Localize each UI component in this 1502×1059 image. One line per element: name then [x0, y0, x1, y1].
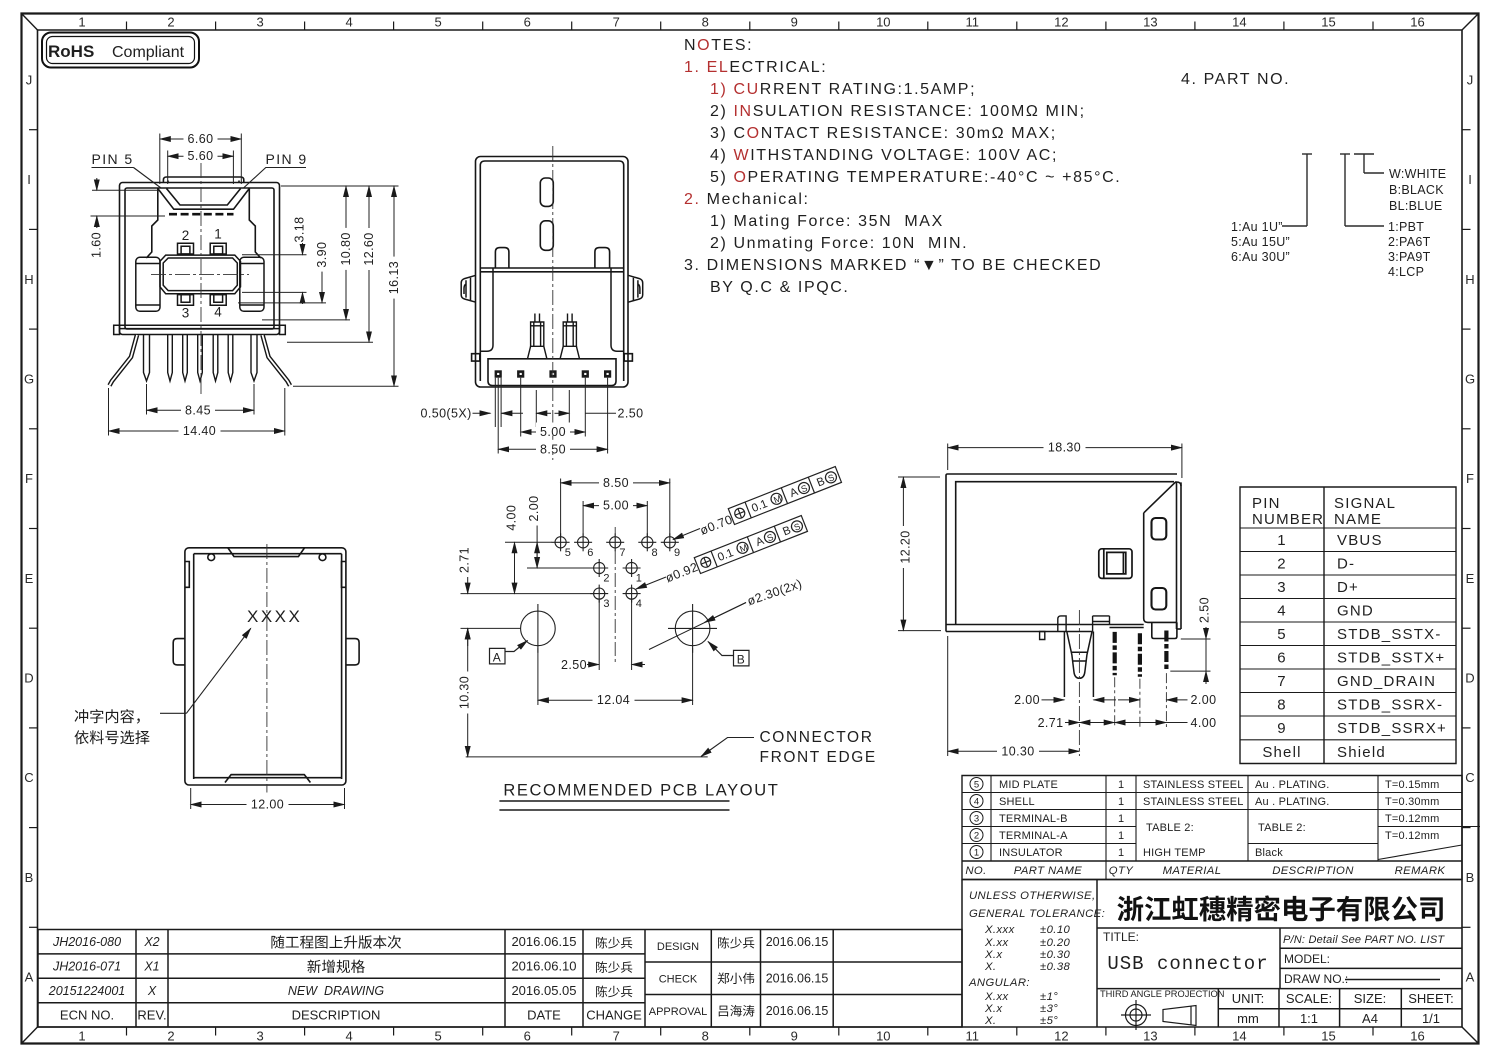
- svg-text:18.30: 18.30: [1048, 441, 1081, 455]
- svg-text:5:Au 15U”: 5:Au 15U”: [1231, 235, 1290, 249]
- svg-text:2: 2: [167, 15, 174, 30]
- svg-text:PIN 9: PIN 9: [266, 151, 308, 167]
- svg-text:11: 11: [966, 15, 980, 30]
- dims pcb top: [561, 479, 670, 537]
- svg-text:BL:BLUE: BL:BLUE: [1389, 199, 1443, 213]
- svg-text:13: 13: [1143, 15, 1157, 30]
- svg-text:STAINLESS STEEL: STAINLESS STEEL: [1143, 779, 1244, 791]
- svg-text:J: J: [26, 72, 33, 87]
- svg-text:DRAW NO.:: DRAW NO.:: [1284, 972, 1348, 986]
- svg-text:B: B: [737, 652, 745, 666]
- leader 0.70 with fcf: [673, 529, 700, 540]
- svg-text:4: 4: [974, 797, 979, 808]
- svg-text:±5°: ±5°: [1040, 1015, 1058, 1027]
- svg-text:CHECK: CHECK: [659, 974, 698, 986]
- CJK text placeholder: [74, 709, 1442, 1016]
- svg-text:TABLE 2:: TABLE 2:: [1146, 822, 1194, 834]
- svg-text:2) Unmating Force: 10N MIN.: 2) Unmating Force: 10N MIN.: [710, 235, 968, 252]
- svg-text:Shield: Shield: [1337, 744, 1386, 761]
- bent legs: [110, 335, 138, 386]
- svg-text:1: 1: [214, 227, 222, 242]
- svg-text:2.71: 2.71: [458, 547, 472, 573]
- svg-text:QTY: QTY: [1109, 865, 1134, 877]
- svg-text:16.13: 16.13: [387, 261, 401, 294]
- svg-text:P/N: Detail See PART NO. LIST: P/N: Detail See PART NO. LIST: [1283, 934, 1445, 946]
- svg-text:1) CURRENT RATING:1.5AMP;: 1) CURRENT RATING:1.5AMP;: [710, 81, 976, 98]
- svg-text:9: 9: [791, 1029, 798, 1044]
- dim 1.60: [91, 178, 166, 262]
- svg-text:GND: GND: [1337, 603, 1374, 620]
- svg-text:9: 9: [791, 15, 798, 30]
- svg-text:STDB_SSRX+: STDB_SSRX+: [1337, 720, 1447, 737]
- svg-text:PART NAME: PART NAME: [1014, 865, 1083, 877]
- svg-text:TERMINAL-A: TERMINAL-A: [999, 830, 1068, 842]
- svg-text:10.30: 10.30: [458, 676, 472, 709]
- svg-text:±3°: ±3°: [1040, 1003, 1058, 1015]
- svg-text:4:LCP: 4:LCP: [1388, 265, 1424, 279]
- svg-text:2016.06.15: 2016.06.15: [511, 934, 576, 949]
- svg-text:2:PA6T: 2:PA6T: [1388, 235, 1431, 249]
- svg-text:Compliant: Compliant: [112, 44, 185, 61]
- svg-text:D: D: [1465, 671, 1474, 686]
- svg-text:3: 3: [256, 15, 263, 30]
- svg-text:ECN NO.: ECN NO.: [60, 1008, 114, 1023]
- svg-text:15: 15: [1321, 1029, 1335, 1044]
- center peg: [1064, 632, 1093, 698]
- svg-text:X2: X2: [143, 935, 159, 949]
- svg-text:15: 15: [1321, 15, 1335, 30]
- svg-text:2.00: 2.00: [1014, 693, 1040, 707]
- svg-text:JH2016-080: JH2016-080: [52, 935, 121, 949]
- svg-text:X.xx: X.xx: [984, 937, 1009, 949]
- svg-text:G: G: [24, 371, 34, 386]
- svg-text:12.60: 12.60: [362, 232, 376, 265]
- svg-text:Shell: Shell: [1262, 744, 1301, 761]
- svg-text:5.00: 5.00: [603, 499, 629, 513]
- svg-text:SIGNAL: SIGNAL: [1334, 495, 1396, 512]
- side latches: [136, 257, 264, 311]
- svg-text:RECOMMENDED PCB LAYOUT: RECOMMENDED PCB LAYOUT: [503, 782, 779, 800]
- dashed opening bottom: [169, 213, 234, 216]
- svg-text:DATE: DATE: [527, 1008, 561, 1023]
- svg-text:2: 2: [1277, 556, 1287, 573]
- svg-text:8: 8: [702, 1029, 709, 1044]
- svg-text:12: 12: [1054, 1029, 1068, 1044]
- svg-text:D: D: [24, 671, 33, 686]
- svg-text:TITLE:: TITLE:: [1103, 930, 1139, 944]
- svg-text:1. ELECTRICAL:: 1. ELECTRICAL:: [684, 59, 827, 76]
- svg-text:4. PART NO.: 4. PART NO.: [1181, 71, 1290, 88]
- svg-text:14: 14: [1232, 15, 1246, 30]
- svg-text:1:Au 1U”: 1:Au 1U”: [1231, 220, 1283, 234]
- svg-text:NUMBER: NUMBER: [1252, 511, 1324, 528]
- svg-text:X.: X.: [984, 1015, 996, 1027]
- svg-text:4.00: 4.00: [1191, 716, 1217, 730]
- leader 0.92 with fcf: [636, 577, 666, 589]
- svg-text:10: 10: [876, 15, 890, 30]
- svg-text:B:BLACK: B:BLACK: [1389, 183, 1444, 197]
- svg-text:1: 1: [1277, 532, 1287, 549]
- svg-text:RoHS: RoHS: [48, 42, 94, 61]
- bottom flange: [114, 325, 286, 334]
- svg-text:5.00: 5.00: [540, 425, 566, 439]
- svg-text:J: J: [1467, 72, 1474, 87]
- svg-text:16: 16: [1410, 15, 1424, 30]
- svg-text:X.x: X.x: [984, 1003, 1003, 1015]
- svg-text:10.80: 10.80: [339, 232, 353, 265]
- svg-text:JH2016-071: JH2016-071: [52, 959, 121, 973]
- svg-text:CHANGE: CHANGE: [586, 1008, 642, 1023]
- side legs: [1113, 632, 1117, 675]
- svg-text:1: 1: [78, 1029, 85, 1044]
- svg-text:VBUS: VBUS: [1337, 532, 1383, 549]
- svg-text:3: 3: [182, 306, 190, 321]
- company name 浙江虹穗精密电子有限公司: [1117, 896, 1143, 922]
- svg-text:APPROVAL: APPROVAL: [649, 1006, 708, 1018]
- svg-text:1: 1: [974, 848, 979, 859]
- svg-text:3.90: 3.90: [315, 242, 329, 268]
- svg-text:5: 5: [434, 1029, 441, 1044]
- svg-text:13: 13: [1143, 1029, 1157, 1044]
- svg-text:1: 1: [78, 15, 85, 30]
- leader arrow to XXXX: [160, 628, 251, 713]
- svg-text:5.60: 5.60: [188, 149, 214, 163]
- svg-text:GENERAL TOLERANCE:: GENERAL TOLERANCE:: [969, 908, 1105, 920]
- svg-text:MATERIAL: MATERIAL: [1163, 865, 1222, 877]
- svg-text:1: 1: [1118, 796, 1124, 808]
- svg-text:STAINLESS STEEL: STAINLESS STEEL: [1143, 796, 1244, 808]
- svg-text:B: B: [25, 870, 34, 885]
- dims 2.00 2.00 2.71 4.00 10.30: [948, 636, 1188, 756]
- svg-text:2016.06.15: 2016.06.15: [766, 1004, 829, 1018]
- svg-text:5: 5: [565, 547, 571, 559]
- svg-text:CONNECTOR: CONNECTOR: [760, 729, 874, 746]
- svg-text:10.30: 10.30: [1001, 744, 1034, 758]
- view 3: shell top view: [173, 548, 359, 785]
- svg-text:ANGULAR:: ANGULAR:: [968, 977, 1030, 989]
- svg-text:T=0.12mm: T=0.12mm: [1385, 813, 1439, 825]
- svg-text:3: 3: [974, 814, 979, 825]
- datum A and B: [490, 641, 750, 666]
- svg-text:H: H: [24, 272, 33, 287]
- contact pins: [528, 314, 547, 359]
- svg-text:X.xxx: X.xxx: [984, 924, 1015, 936]
- svg-text:X: X: [147, 984, 157, 998]
- svg-text:1:1: 1:1: [1300, 1011, 1318, 1026]
- svg-text:2.50: 2.50: [561, 658, 587, 672]
- svg-text:8.50: 8.50: [603, 476, 629, 490]
- centerline view2: [552, 146, 554, 460]
- svg-text:2016.05.05: 2016.05.05: [511, 983, 576, 998]
- svg-text:NO.: NO.: [965, 865, 986, 877]
- svg-text:8: 8: [1277, 697, 1287, 714]
- dim 2.50 side: [1170, 626, 1210, 684]
- svg-text:4: 4: [214, 305, 222, 320]
- svg-text:THIRD ANGLE PROJECTION: THIRD ANGLE PROJECTION: [1100, 989, 1225, 999]
- side strips: [480, 268, 623, 351]
- svg-text:X.xx: X.xx: [984, 991, 1009, 1003]
- svg-text:8: 8: [702, 15, 709, 30]
- svg-text:3: 3: [603, 598, 609, 610]
- svg-text:H: H: [1465, 272, 1474, 287]
- svg-text:3.18: 3.18: [293, 217, 307, 243]
- svg-text:±0.20: ±0.20: [1040, 937, 1071, 949]
- svg-text:6: 6: [524, 15, 531, 30]
- svg-text:X.x: X.x: [984, 949, 1003, 961]
- svg-text:D-: D-: [1337, 556, 1355, 573]
- svg-text:BY Q.C & IPQC.: BY Q.C & IPQC.: [710, 279, 849, 296]
- svg-text:20151224001: 20151224001: [48, 984, 125, 998]
- svg-text:2016.06.10: 2016.06.10: [511, 958, 576, 973]
- svg-text:Black: Black: [1255, 847, 1283, 859]
- svg-text:4: 4: [345, 1029, 352, 1044]
- svg-text:2: 2: [603, 573, 609, 585]
- svg-text:14: 14: [1232, 1029, 1246, 1044]
- svg-text:A: A: [25, 970, 34, 985]
- svg-text:10: 10: [876, 1029, 890, 1044]
- svg-text:T=0.12mm: T=0.12mm: [1385, 830, 1439, 842]
- svg-text:16: 16: [1410, 1029, 1424, 1044]
- svg-text:1/1: 1/1: [1422, 1011, 1440, 1026]
- dims view1: [160, 134, 242, 185]
- svg-text:4: 4: [1277, 603, 1287, 620]
- under-body structure: [1040, 616, 1144, 640]
- svg-text:2: 2: [182, 228, 190, 243]
- centerlines view1: [151, 163, 249, 396]
- svg-text:NAME: NAME: [1334, 511, 1382, 528]
- svg-text:5: 5: [434, 15, 441, 30]
- svg-text:1: 1: [1118, 847, 1124, 859]
- svg-text:8.45: 8.45: [185, 403, 211, 417]
- svg-text:2.50: 2.50: [1198, 597, 1212, 623]
- svg-text:8: 8: [652, 547, 658, 559]
- svg-text:2.71: 2.71: [1038, 716, 1064, 730]
- svg-text:±1°: ±1°: [1040, 991, 1058, 1003]
- svg-text:2016.06.15: 2016.06.15: [766, 972, 829, 986]
- svg-text:7: 7: [613, 1029, 620, 1044]
- svg-text:MID PLATE: MID PLATE: [999, 779, 1058, 791]
- svg-text:C: C: [24, 770, 33, 785]
- svg-text:12.00: 12.00: [251, 798, 284, 812]
- svg-text:X1: X1: [143, 959, 159, 973]
- svg-text:6: 6: [587, 547, 593, 559]
- svg-text:7: 7: [1277, 673, 1287, 690]
- svg-text:12.04: 12.04: [597, 693, 630, 707]
- base: [472, 354, 633, 386]
- pins 1 2 3 4: [178, 243, 227, 305]
- dims 8.45 / 14.40: [109, 384, 285, 436]
- bottom pins: [495, 370, 502, 377]
- svg-text:STDB_SSRX-: STDB_SSRX-: [1337, 697, 1443, 714]
- svg-text:5: 5: [974, 780, 979, 791]
- svg-text:SCALE:: SCALE:: [1286, 991, 1332, 1006]
- svg-text:REV.: REV.: [137, 1008, 166, 1023]
- svg-text:STDB_SSTX+: STDB_SSTX+: [1337, 650, 1445, 667]
- svg-text:3: 3: [256, 1029, 263, 1044]
- svg-text:X.: X.: [984, 961, 996, 973]
- svg-text:TERMINAL-B: TERMINAL-B: [999, 813, 1068, 825]
- svg-text:1:PBT: 1:PBT: [1388, 220, 1424, 234]
- svg-text:REMARK: REMARK: [1395, 865, 1446, 877]
- svg-text:3. DIMENSIONS MARKED “▼” TO BE: 3. DIMENSIONS MARKED “▼” TO BE CHECKED: [684, 257, 1102, 274]
- svg-text:Au . PLATING.: Au . PLATING.: [1255, 796, 1330, 808]
- svg-text:MODEL:: MODEL:: [1284, 952, 1330, 966]
- svg-text:A: A: [1466, 970, 1475, 985]
- svg-text:4) WITHSTANDING VOLTAGE: 100V: 4) WITHSTANDING VOLTAGE: 100V AC;: [710, 147, 1058, 164]
- svg-text:3) CONTACT RESISTANCE: 30mΩ MA: 3) CONTACT RESISTANCE: 30mΩ MAX;: [710, 125, 1057, 142]
- svg-text:DESCRIPTION: DESCRIPTION: [292, 1008, 381, 1023]
- svg-text:HIGH TEMP: HIGH TEMP: [1143, 847, 1206, 859]
- svg-text:±0.30: ±0.30: [1040, 949, 1071, 961]
- dim 2.50 pcb: [587, 600, 645, 670]
- dims view2: [473, 378, 617, 454]
- svg-text:T=0.30mm: T=0.30mm: [1385, 796, 1439, 808]
- svg-text:Au . PLATING.: Au . PLATING.: [1255, 779, 1330, 791]
- svg-text:1) Mating Force: 35N MAX: 1) Mating Force: 35N MAX: [710, 213, 944, 230]
- svg-text:6:Au 30U”: 6:Au 30U”: [1231, 250, 1290, 264]
- dim 12.04: [538, 648, 693, 705]
- svg-text:2: 2: [167, 1029, 174, 1044]
- right dims: [238, 186, 399, 386]
- svg-text:USB connector: USB connector: [1107, 953, 1268, 975]
- svg-text:2.00: 2.00: [527, 496, 541, 522]
- side wings: [461, 275, 643, 302]
- latch hole: [1099, 549, 1132, 579]
- view 2: connector front view B: [476, 157, 629, 388]
- svg-text:XXXX: XXXX: [247, 607, 302, 626]
- svg-text:PIN 5: PIN 5: [92, 151, 134, 167]
- svg-text:PIN: PIN: [1252, 495, 1281, 512]
- svg-text:9: 9: [674, 547, 680, 559]
- svg-text:UNIT:: UNIT:: [1232, 991, 1265, 1006]
- svg-text:±0.38: ±0.38: [1040, 961, 1071, 973]
- svg-text:GND_DRAIN: GND_DRAIN: [1337, 673, 1436, 690]
- svg-text:NOTES:: NOTES:: [684, 37, 753, 54]
- svg-text:I: I: [1468, 172, 1472, 187]
- svg-text:11: 11: [966, 1029, 980, 1044]
- svg-text:W:WHITE: W:WHITE: [1389, 167, 1446, 181]
- svg-text:0.50(5X): 0.50(5X): [421, 407, 472, 421]
- svg-text:±0.10: ±0.10: [1040, 924, 1071, 936]
- svg-text:A: A: [493, 650, 501, 664]
- svg-text:2.00: 2.00: [1191, 693, 1217, 707]
- svg-text:E: E: [25, 571, 34, 586]
- svg-text:C: C: [1465, 770, 1474, 785]
- svg-text:2016.06.15: 2016.06.15: [766, 935, 829, 949]
- legs: [144, 335, 258, 382]
- svg-text:STDB_SSTX-: STDB_SSTX-: [1337, 626, 1442, 643]
- svg-text:2.50: 2.50: [618, 407, 644, 421]
- dims pcb left: [461, 523, 708, 757]
- svg-text:7: 7: [613, 15, 620, 30]
- svg-text:2: 2: [974, 831, 979, 842]
- svg-text:DESIGN: DESIGN: [657, 941, 699, 953]
- svg-text:6: 6: [1277, 650, 1287, 667]
- svg-text:7: 7: [619, 547, 625, 559]
- leader 2.30: [649, 603, 746, 650]
- svg-text:UNLESS OTHERWISE,: UNLESS OTHERWISE,: [969, 890, 1096, 902]
- svg-text:4: 4: [636, 598, 642, 610]
- recommended pcb layout: [552, 533, 679, 602]
- dim 12.20: [898, 477, 941, 631]
- svg-text:9: 9: [1277, 720, 1287, 737]
- svg-text:1: 1: [1118, 813, 1124, 825]
- tongue: [160, 255, 241, 294]
- svg-text:5) OPERATING TEMPERATURE:-40°C: 5) OPERATING TEMPERATURE:-40°C ~ +85°C.: [710, 169, 1121, 186]
- view 4: connector side view: [946, 474, 1181, 639]
- svg-text:5: 5: [1277, 626, 1287, 643]
- svg-text:4.00: 4.00: [504, 505, 518, 531]
- svg-text:A4: A4: [1362, 1011, 1378, 1026]
- svg-text:I: I: [27, 172, 31, 187]
- svg-text:3:PA9T: 3:PA9T: [1388, 250, 1431, 264]
- svg-text:12.20: 12.20: [899, 530, 913, 563]
- svg-text:12: 12: [1054, 15, 1068, 30]
- svg-text:mm: mm: [1237, 1011, 1259, 1026]
- svg-text:3: 3: [1277, 579, 1287, 596]
- svg-text:DESCRIPTION: DESCRIPTION: [1272, 865, 1354, 877]
- svg-text:B: B: [1466, 870, 1475, 885]
- svg-text:6: 6: [524, 1029, 531, 1044]
- svg-text:SHELL: SHELL: [999, 796, 1035, 808]
- svg-text:8.50: 8.50: [540, 442, 566, 456]
- svg-text:1: 1: [636, 573, 642, 585]
- view 1: connector front view: [120, 177, 280, 335]
- svg-text:D+: D+: [1337, 579, 1359, 596]
- svg-text:2) INSULATION RESISTANCE: 100M: 2) INSULATION RESISTANCE: 100MΩ MIN;: [710, 103, 1086, 120]
- dim 12.00: [191, 788, 345, 809]
- svg-text:2. Mechanical:: 2. Mechanical:: [684, 191, 810, 208]
- svg-text:1.60: 1.60: [90, 232, 104, 258]
- svg-text:TABLE 2:: TABLE 2:: [1258, 822, 1306, 834]
- svg-text:SHEET:: SHEET:: [1408, 991, 1454, 1006]
- svg-text:T=0.15mm: T=0.15mm: [1385, 779, 1439, 791]
- views placeholder: [88, 130, 1217, 812]
- dim 18.30: [948, 444, 1182, 479]
- svg-text:INSULATOR: INSULATOR: [999, 847, 1063, 859]
- svg-text:6.60: 6.60: [188, 132, 214, 146]
- svg-text:E: E: [1466, 571, 1475, 586]
- svg-text:FRONT EDGE: FRONT EDGE: [760, 749, 877, 766]
- svg-text:1: 1: [1118, 830, 1124, 842]
- svg-text:1: 1: [1118, 779, 1124, 791]
- holes A and B: [521, 604, 717, 653]
- svg-text:SIZE:: SIZE:: [1354, 991, 1387, 1006]
- svg-text:F: F: [25, 471, 33, 486]
- svg-text:14.40: 14.40: [183, 424, 216, 438]
- svg-text:NEW DRAWING: NEW DRAWING: [288, 984, 385, 998]
- svg-text:G: G: [1465, 371, 1475, 386]
- svg-text:4: 4: [345, 15, 352, 30]
- svg-text:F: F: [1466, 471, 1474, 486]
